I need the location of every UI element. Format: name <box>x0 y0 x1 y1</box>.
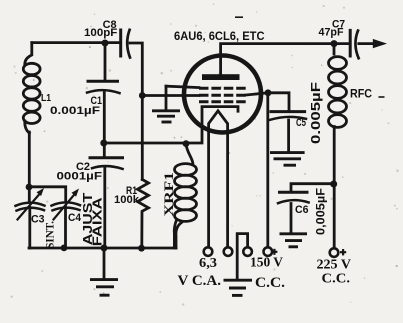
svg-text:C.C.: C.C. <box>255 275 285 291</box>
svg-text:RFC: RFC <box>350 89 372 101</box>
svg-text:C4: C4 <box>68 212 82 224</box>
svg-text:150 V: 150 V <box>250 255 283 270</box>
svg-text:0001µF: 0001µF <box>57 170 103 182</box>
svg-text:100pF: 100pF <box>84 27 118 39</box>
svg-text:6AU6, 6CL6, ETC: 6AU6, 6CL6, ETC <box>174 29 265 43</box>
svg-text:0.005µF: 0.005µF <box>308 82 323 144</box>
svg-text:225 V: 225 V <box>317 257 352 272</box>
svg-text:6,3: 6,3 <box>199 256 217 271</box>
svg-text:47pF: 47pF <box>319 27 344 39</box>
svg-text:0.001µF: 0.001µF <box>50 105 100 117</box>
svg-text:FAIXA: FAIXA <box>91 197 105 246</box>
svg-text:V C.A.: V C.A. <box>178 273 222 289</box>
svg-text:XRF1: XRF1 <box>161 172 176 217</box>
svg-text:C5: C5 <box>296 117 306 129</box>
svg-text:L1: L1 <box>41 92 51 104</box>
svg-text:C.C.: C.C. <box>322 271 351 286</box>
svg-text:100k: 100k <box>114 194 140 206</box>
svg-text:0,005µF: 0,005µF <box>313 188 327 235</box>
svg-text:SINT.: SINT. <box>43 221 57 249</box>
svg-text:C6: C6 <box>295 204 309 216</box>
